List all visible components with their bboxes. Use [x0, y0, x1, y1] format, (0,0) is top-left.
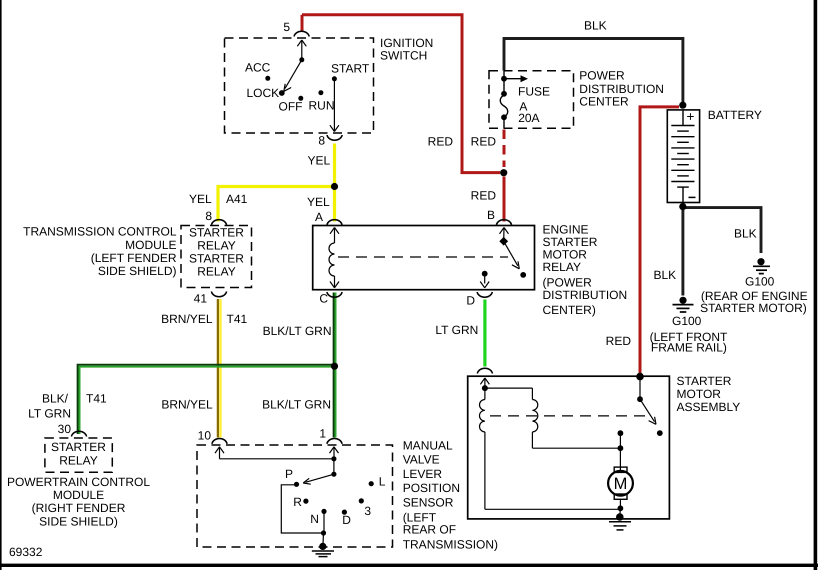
- G100 left labels: [650, 314, 728, 354]
- svg-text:N: N: [310, 512, 319, 526]
- relay pin D connector: [477, 292, 492, 297]
- relay pin B connector: [496, 220, 511, 225]
- MVLPS input arrows: [215, 447, 339, 459]
- contact OFF: [298, 96, 303, 101]
- contact RUN: [318, 90, 323, 95]
- svg-text:L: L: [379, 474, 386, 488]
- node battery positive: [679, 102, 686, 109]
- starter mechanical link dashed: [490, 415, 649, 417]
- TCM pin 41 connector: [211, 292, 226, 297]
- svg-text:FRAME RAIL): FRAME RAIL): [651, 340, 727, 354]
- frame left border: [0, 0, 2, 570]
- label BLK/ LT GRN left: [28, 392, 71, 421]
- contact P: [294, 482, 299, 487]
- contact R: [303, 499, 308, 504]
- svg-text:BRN/YEL: BRN/YEL: [161, 398, 213, 412]
- node red junction: [500, 169, 507, 176]
- MVLPS pin 10 connector: [212, 439, 227, 444]
- contact L: [369, 481, 374, 486]
- svg-text:BRN/YEL: BRN/YEL: [161, 312, 213, 326]
- engine starter motor relay box: [313, 226, 535, 290]
- MVLPS selector: [303, 456, 336, 484]
- pin 8 connector: [327, 135, 342, 140]
- svg-text:SIDE SHIELD): SIDE SHIELD): [98, 264, 177, 278]
- frame bottom border: [0, 564, 818, 567]
- relay contact D branch: [480, 271, 489, 288]
- svg-text:10: 10: [198, 429, 212, 443]
- svg-text:YEL: YEL: [307, 195, 330, 209]
- svg-text:BLK: BLK: [734, 227, 757, 241]
- svg-text:MANUAL: MANUAL: [403, 438, 453, 452]
- wire BRN/YEL TCM pin41 to MVLPS pin10: [218, 299, 221, 438]
- MVLPS pin 1 connector: [327, 439, 342, 444]
- svg-text:TRANSMISSION CONTROL: TRANSMISSION CONTROL: [23, 225, 177, 239]
- fuse A 20A: [500, 71, 528, 129]
- svg-text:RED: RED: [606, 334, 632, 348]
- ignition switch box: [225, 38, 374, 133]
- svg-text:LEVER: LEVER: [403, 467, 443, 481]
- svg-text:30: 30: [58, 422, 72, 436]
- svg-text:STARTER MOTOR): STARTER MOTOR): [700, 301, 807, 315]
- wire BLK/LT GRN junction to PCM pin30: [78, 365, 333, 434]
- svg-text:RED: RED: [471, 135, 497, 149]
- svg-text:BLK/LT GRN: BLK/LT GRN: [262, 398, 331, 412]
- ignition rotary switch: [284, 40, 307, 91]
- ground starter motor: [609, 513, 631, 530]
- relay switch B-D: [499, 228, 526, 278]
- G100 right labels: [700, 275, 807, 315]
- wire BLK battery negative to G100 right: [684, 208, 761, 253]
- wire BLK fuse to battery positive: [504, 39, 683, 103]
- svg-text:T41: T41: [227, 312, 248, 326]
- svg-text:D: D: [342, 513, 351, 527]
- pin 5 connector: [294, 31, 309, 36]
- starter switch: [637, 377, 663, 436]
- frame right border: [814, 0, 818, 570]
- starter solenoid coil 1: [479, 388, 620, 509]
- contact ACC: [265, 76, 270, 81]
- relay pin A connector: [327, 220, 342, 225]
- svg-text:MODULE: MODULE: [53, 488, 104, 502]
- starter solenoid coil 2: [532, 399, 620, 448]
- svg-text:69332: 69332: [9, 545, 43, 559]
- TCM pin 8 connector: [211, 220, 226, 225]
- svg-text:STARTER: STARTER: [189, 252, 244, 266]
- wire BLK battery negative down to G100 left: [681, 208, 684, 296]
- svg-text:BLK: BLK: [584, 19, 607, 33]
- relay coil A-C: [329, 228, 339, 288]
- svg-text:LT GRN: LT GRN: [435, 323, 478, 337]
- powertrain control module box: [45, 438, 112, 472]
- svg-text:CENTER): CENTER): [543, 303, 596, 317]
- svg-text:LOCK: LOCK: [247, 86, 280, 100]
- node green junction: [331, 363, 338, 370]
- battery: [667, 109, 699, 203]
- PCM inner label: [51, 440, 106, 468]
- power distribution center label: [579, 68, 664, 108]
- wire RED battery to starter motor assembly: [640, 107, 679, 375]
- svg-text:RELAY: RELAY: [543, 260, 581, 274]
- svg-text:R: R: [293, 495, 302, 509]
- wire YEL ignition pin8 to junction: [333, 144, 336, 185]
- svg-text:D: D: [466, 294, 475, 308]
- wire YEL junction to TCM pin 8: [218, 187, 333, 222]
- contact D: [342, 509, 347, 514]
- ignition switch label: [380, 36, 433, 63]
- svg-text:SWITCH: SWITCH: [380, 49, 427, 63]
- svg-text:POSITION: POSITION: [403, 481, 460, 495]
- starter label: [677, 374, 741, 414]
- svg-text:VALVE: VALVE: [403, 453, 440, 467]
- svg-text:+: +: [687, 109, 695, 124]
- starter motor branch: [618, 430, 624, 470]
- svg-text:M: M: [614, 475, 628, 493]
- svg-text:8: 8: [205, 209, 212, 223]
- node yellow junction: [331, 183, 338, 190]
- MVLPS label right: [403, 438, 498, 551]
- power distribution center fuse box: [489, 71, 574, 129]
- wire RED junction to relay pin B: [503, 177, 506, 222]
- svg-text:RUN: RUN: [309, 99, 335, 113]
- starter motor assembly box: [468, 376, 670, 519]
- ground MVLPS: [312, 543, 334, 557]
- svg-text:1: 1: [319, 427, 326, 441]
- svg-text:MODULE: MODULE: [125, 238, 176, 252]
- svg-text:41: 41: [194, 292, 208, 306]
- node battery negative: [679, 203, 686, 210]
- svg-text:POWER: POWER: [579, 68, 625, 82]
- svg-text:STARTER: STARTER: [51, 440, 106, 454]
- svg-text:(RIGHT FENDER: (RIGHT FENDER: [32, 501, 126, 515]
- svg-text:8: 8: [318, 134, 325, 148]
- svg-text:OFF: OFF: [279, 100, 303, 114]
- relay pin C connector: [327, 292, 342, 297]
- contact N: [321, 509, 326, 514]
- svg-text:BLK/LT GRN: BLK/LT GRN: [263, 324, 332, 338]
- motor M: [608, 467, 633, 514]
- svg-text:CENTER: CENTER: [579, 95, 629, 109]
- wire START to pin 8: [330, 79, 339, 132]
- svg-text:BATTERY: BATTERY: [708, 108, 762, 122]
- contact LOCK: [279, 90, 285, 96]
- wire BLK/LT GRN relay pinC to MVLPS pin1: [334, 293, 336, 438]
- svg-text:BLK: BLK: [654, 268, 677, 282]
- svg-text:3: 3: [364, 504, 371, 518]
- wire RED ignition to junction (top rail): [302, 15, 500, 173]
- svg-text:RELAY: RELAY: [197, 239, 235, 253]
- svg-text:T41: T41: [86, 392, 107, 406]
- svg-text:YEL: YEL: [308, 154, 331, 168]
- PCM label below: [7, 475, 150, 529]
- svg-text:POWERTRAIN CONTROL: POWERTRAIN CONTROL: [7, 475, 150, 489]
- TCM left label: [23, 225, 177, 279]
- svg-text:SENSOR: SENSOR: [403, 496, 454, 510]
- TCM inner label: [189, 226, 244, 279]
- svg-text:FUSE: FUSE: [518, 84, 550, 98]
- svg-text:YEL: YEL: [189, 192, 212, 206]
- fuse labels: [518, 84, 550, 125]
- starter solenoid input: [480, 378, 532, 400]
- svg-text:DISTRIBUTION: DISTRIBUTION: [543, 288, 628, 302]
- relay label right: [543, 223, 628, 318]
- svg-text:(LEFT FENDER: (LEFT FENDER: [91, 251, 177, 265]
- wire RED ignition pin5 stub: [301, 15, 304, 31]
- PCM pin 30 connector: [71, 431, 86, 436]
- svg-text:LT GRN: LT GRN: [28, 407, 71, 421]
- svg-text:REAR OF: REAR OF: [403, 523, 456, 537]
- relay mechanical link dashed: [338, 256, 508, 258]
- wire YEL junction to relay pin A: [333, 189, 336, 222]
- svg-text:A41: A41: [226, 192, 248, 206]
- wire LT GRN relay pinD to starter assembly: [483, 300, 486, 367]
- svg-text:STARTER: STARTER: [677, 374, 732, 388]
- svg-text:BLK/: BLK/: [42, 392, 69, 406]
- svg-text:ACC: ACC: [245, 61, 271, 75]
- node starter feed junction: [636, 373, 644, 381]
- starter entry connector: [477, 368, 492, 373]
- svg-text:20A: 20A: [518, 111, 539, 125]
- svg-text:RED: RED: [471, 189, 497, 203]
- ground G100 left of frame rail: [673, 297, 694, 312]
- svg-text:SIDE SHIELD): SIDE SHIELD): [39, 514, 118, 528]
- manual valve lever position sensor box: [197, 445, 393, 547]
- svg-text:RELAY: RELAY: [197, 265, 235, 279]
- svg-text:P: P: [285, 467, 293, 481]
- ground G100 rear of engine: [753, 258, 770, 274]
- contact START: [332, 76, 337, 81]
- svg-text:START: START: [331, 62, 370, 76]
- wire RED fuse output dashed: [503, 130, 506, 168]
- contact 3: [359, 498, 364, 503]
- svg-text:TRANSMISSION): TRANSMISSION): [403, 538, 498, 552]
- MVLPS P to ground path: [281, 485, 326, 544]
- svg-text:RELAY: RELAY: [59, 454, 97, 468]
- svg-text:B: B: [487, 208, 495, 222]
- svg-text:ASSEMBLY: ASSEMBLY: [677, 400, 741, 414]
- svg-text:G100: G100: [672, 314, 702, 328]
- svg-text:A: A: [315, 210, 323, 224]
- svg-text:STARTER: STARTER: [189, 226, 244, 240]
- transmission control module box: [181, 226, 252, 288]
- svg-text:5: 5: [283, 20, 290, 34]
- svg-text:MOTOR: MOTOR: [677, 387, 722, 401]
- svg-text:G100: G100: [745, 275, 775, 289]
- svg-text:RED: RED: [428, 135, 454, 149]
